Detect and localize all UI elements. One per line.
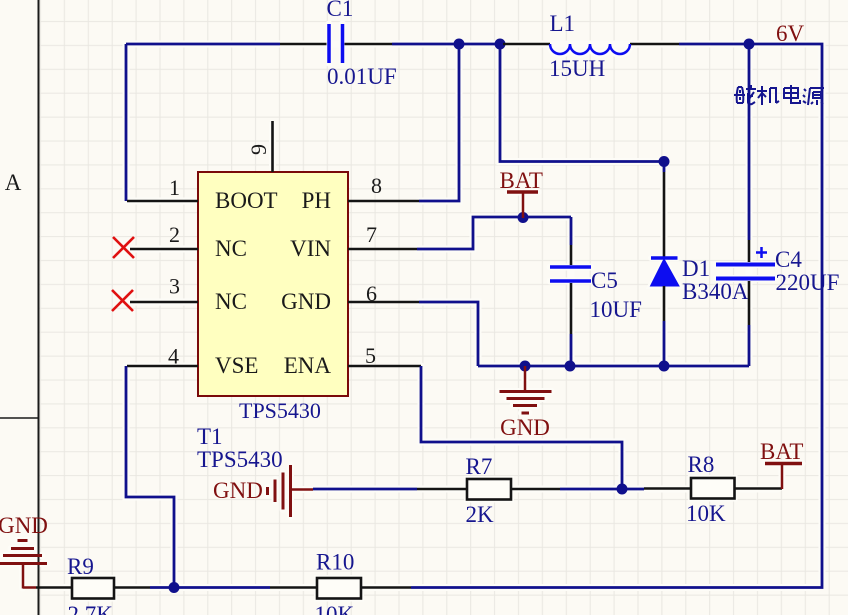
pin name PH	[302, 188, 331, 213]
inductor L1	[503, 44, 679, 54]
pin name ENA	[284, 353, 332, 378]
no-connect X pin 2	[113, 237, 134, 258]
node junction at D1 branch	[495, 39, 506, 50]
svg-text:GND: GND	[500, 415, 550, 440]
label 2K	[466, 502, 495, 527]
svg-text:BOOT: BOOT	[215, 188, 278, 213]
resistor R8	[644, 478, 782, 499]
svg-text:GND: GND	[0, 513, 48, 538]
pin name VIN	[290, 236, 331, 261]
svg-text:T1: T1	[197, 424, 223, 449]
svg-text:6V: 6V	[776, 21, 805, 46]
pin name GND (6)	[281, 289, 331, 314]
svg-text:9: 9	[246, 144, 271, 155]
pin number 7	[366, 222, 377, 247]
node junction BAT stem	[518, 212, 529, 223]
label B340A	[682, 279, 749, 304]
svg-text:10UF: 10UF	[590, 297, 642, 322]
pin 2 stub	[130, 248, 198, 251]
pin name VSE	[215, 353, 258, 378]
svg-text:4: 4	[168, 344, 179, 369]
label 15UH	[549, 56, 605, 81]
wire R7 to junction	[560, 488, 644, 491]
svg-text:PH: PH	[302, 188, 331, 213]
wire VSE run	[126, 366, 174, 588]
IC U1 body TPS5430	[198, 172, 348, 396]
label R9	[67, 554, 94, 579]
node junction at D1 top	[659, 156, 670, 167]
svg-text:C1: C1	[327, 0, 354, 21]
capacitor C1	[280, 24, 392, 63]
svg-text:8: 8	[371, 173, 382, 198]
pin number 8	[371, 173, 382, 198]
resistor R10	[270, 578, 411, 599]
wire GND pin to bottom rail	[419, 302, 478, 366]
resistor R9	[36, 578, 150, 599]
label 10UF	[590, 297, 642, 322]
svg-text:6: 6	[366, 281, 377, 306]
resistor R7	[417, 479, 560, 500]
svg-text:10K: 10K	[686, 501, 726, 526]
pin 5 stub	[348, 365, 421, 368]
pin number 9	[246, 144, 271, 155]
pin 8 stub	[348, 200, 419, 203]
node junction C5 bottom	[565, 361, 576, 372]
svg-text:B340A: B340A	[682, 279, 749, 304]
wire junction to R10	[174, 586, 270, 589]
sheet border vertical line	[38, 0, 40, 615]
label L1	[550, 11, 576, 36]
node junction GND stem	[520, 361, 531, 372]
no-connect X pin 3	[112, 290, 133, 311]
diode D1 B340A	[651, 166, 680, 366]
power port BAT (top)	[500, 168, 543, 218]
svg-text:R9: R9	[67, 554, 94, 579]
svg-text:L1: L1	[550, 11, 576, 36]
svg-text:C4: C4	[775, 247, 802, 272]
wire bottom rail	[478, 365, 749, 368]
svg-text:BAT: BAT	[760, 439, 803, 464]
wire top rail right	[411, 44, 822, 588]
svg-text:VSE: VSE	[215, 353, 258, 378]
label 10K	[686, 501, 726, 526]
svg-text:7: 7	[366, 222, 377, 247]
wire VIN to BAT rail	[417, 217, 571, 249]
pin name BOOT	[215, 188, 278, 213]
net name servo power (CJK)	[734, 85, 824, 105]
pin number 5	[365, 343, 376, 368]
svg-text:A: A	[5, 170, 22, 195]
capacitor C4 (polarized)	[716, 44, 775, 366]
svg-text:15UH: 15UH	[549, 56, 605, 81]
sheet zone divider	[0, 417, 39, 419]
label 0.01UF	[327, 64, 397, 89]
ground GND (left, flipped)	[0, 513, 48, 589]
node junction bottom rail	[169, 582, 180, 593]
svg-text:ENA: ENA	[284, 353, 332, 378]
svg-text:10K: 10K	[315, 602, 355, 615]
svg-text:2.7K: 2.7K	[68, 602, 114, 615]
label TPS5430 under box	[239, 398, 321, 423]
label 10K (R10)	[315, 602, 355, 615]
svg-text:D1: D1	[682, 256, 710, 281]
pin 4 stub	[127, 365, 198, 368]
power label 6V	[776, 21, 805, 46]
label R10	[316, 550, 354, 575]
node junction at C4 branch	[744, 39, 755, 50]
svg-text:NC: NC	[215, 236, 247, 261]
svg-text:1: 1	[169, 175, 180, 200]
label 2.7K	[68, 602, 114, 615]
label D1	[682, 256, 710, 281]
wire ENA to divider junction	[421, 366, 622, 489]
label R7	[466, 454, 493, 479]
label C4	[775, 247, 802, 272]
pin number 6	[366, 281, 377, 306]
svg-text:220UF: 220UF	[776, 270, 840, 295]
svg-text:NC: NC	[215, 289, 247, 314]
pin 1 stub	[127, 200, 198, 203]
pin 6 stub	[348, 301, 419, 304]
svg-text:VIN: VIN	[290, 236, 331, 261]
designator T1	[197, 424, 223, 449]
svg-text:0.01UF: 0.01UF	[327, 64, 397, 89]
node junction divider	[617, 484, 628, 495]
pin number 2	[169, 222, 180, 247]
node junction D1 bottom	[659, 361, 670, 372]
label C1	[327, 0, 354, 21]
zone label A	[5, 170, 22, 195]
svg-text:R10: R10	[316, 550, 354, 575]
svg-text:BAT: BAT	[500, 168, 543, 193]
capacitor C5	[550, 217, 591, 366]
wire PH to riser	[419, 44, 459, 201]
pin name NC (2)	[215, 236, 247, 261]
power port BAT (right)	[760, 439, 803, 489]
svg-text:R7: R7	[466, 454, 493, 479]
pin number 4	[168, 344, 179, 369]
svg-text:2K: 2K	[466, 502, 495, 527]
wire D1 branch from top rail	[500, 44, 664, 162]
svg-text:2: 2	[169, 222, 180, 247]
wire top rail left	[126, 43, 280, 46]
wire GND to R7	[313, 488, 417, 491]
label C5	[591, 268, 618, 293]
value TPS5430	[197, 447, 283, 472]
wire R9 to junction	[150, 586, 174, 589]
pin 7 stub	[348, 248, 417, 251]
wire top-left vertical	[125, 44, 128, 201]
svg-text:TPS5430: TPS5430	[197, 447, 283, 472]
node junction at PH riser	[454, 39, 465, 50]
pin number 3	[169, 274, 180, 299]
pin name NC (3)	[215, 289, 247, 314]
pin 9 stub	[271, 121, 274, 172]
wire top rail middle	[392, 43, 503, 46]
svg-text:TPS5430: TPS5430	[239, 398, 321, 423]
svg-text:R8: R8	[688, 452, 715, 477]
ground GND (below rail)	[500, 366, 552, 440]
svg-text:C5: C5	[591, 268, 618, 293]
label 220UF	[776, 270, 840, 295]
svg-text:GND: GND	[281, 289, 331, 314]
label R8	[688, 452, 715, 477]
svg-text:GND: GND	[213, 478, 263, 503]
svg-text:3: 3	[169, 274, 180, 299]
svg-text:5: 5	[365, 343, 376, 368]
pin number 1	[169, 175, 180, 200]
ground GND (middle, rotated)	[213, 465, 313, 517]
pin 3 stub	[130, 301, 198, 304]
